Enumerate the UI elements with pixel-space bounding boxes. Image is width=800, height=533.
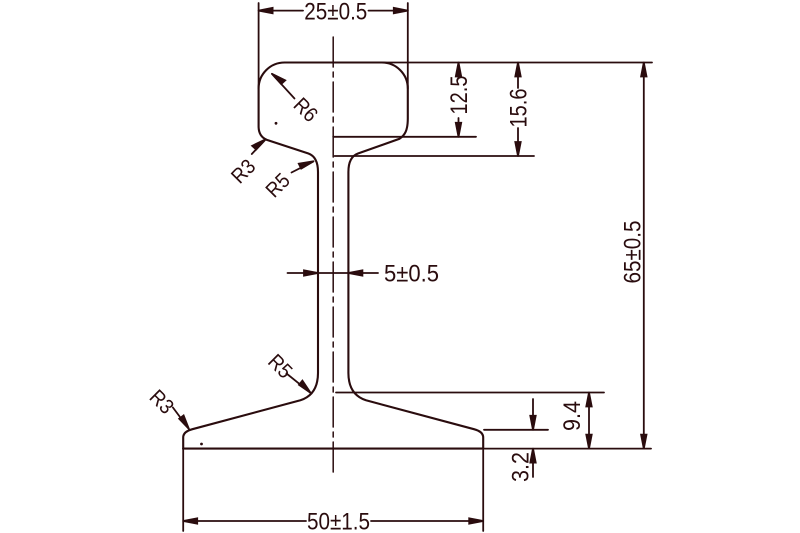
svg-text:50±1.5: 50±1.5 <box>307 509 370 533</box>
dim 15.6: arrows <box>515 63 520 77</box>
dim 3.2: arrows <box>530 416 535 430</box>
dim 25: arrows <box>259 8 273 13</box>
dim 5 (web): dimension line <box>288 272 379 274</box>
dim 65: arrows <box>641 63 646 77</box>
dim 12.5: arrows <box>456 63 461 77</box>
leader R3 base <box>173 408 189 429</box>
dim 5: arrows <box>304 270 318 275</box>
dim 50: arrows <box>183 518 197 523</box>
head bottom reference line (12.5) <box>333 136 476 138</box>
svg-text:3.2: 3.2 <box>508 452 535 482</box>
rail profile outline <box>183 63 483 449</box>
dim 25: extension lines <box>258 3 260 89</box>
dim 25: dimension line <box>259 10 303 12</box>
leader R5 base <box>287 374 311 393</box>
svg-text:5±0.5: 5±0.5 <box>384 261 439 288</box>
reference line 9.4 <box>336 392 604 394</box>
leader R5 head <box>292 161 314 172</box>
dim 9.4: dimension line <box>588 393 590 449</box>
svg-text:25±0.5: 25±0.5 <box>304 0 367 26</box>
svg-text:R5: R5 <box>262 169 295 202</box>
dim 3.2: dimension lines (arrows outside) <box>532 399 534 430</box>
radius center dot head <box>275 122 278 125</box>
dim 50: dimension line <box>183 520 306 522</box>
svg-text:9.4: 9.4 <box>559 401 586 431</box>
svg-text:R3: R3 <box>145 386 178 419</box>
centerline (vertical axis) <box>332 37 334 477</box>
bottom reference line y=448.6 <box>183 448 651 450</box>
leader R3 head <box>252 139 266 154</box>
top reference line y=62.5 <box>285 62 652 64</box>
reference line 3.2 <box>484 429 548 431</box>
svg-text:15.6: 15.6 <box>506 89 533 128</box>
reference line 15.6 <box>335 155 535 157</box>
dim 65: dimension line <box>643 63 645 449</box>
svg-text:12.5: 12.5 <box>446 76 473 115</box>
dim 15.6: dimension line <box>517 63 519 89</box>
dim 9.4: arrows <box>586 393 591 407</box>
svg-text:R3: R3 <box>227 155 260 188</box>
svg-text:65±0.5: 65±0.5 <box>619 221 646 284</box>
dim 12.5: dimension line <box>458 63 460 79</box>
dim 50: extension lines <box>182 450 184 531</box>
radius center dot base <box>200 443 203 446</box>
leader R6 <box>272 74 295 99</box>
